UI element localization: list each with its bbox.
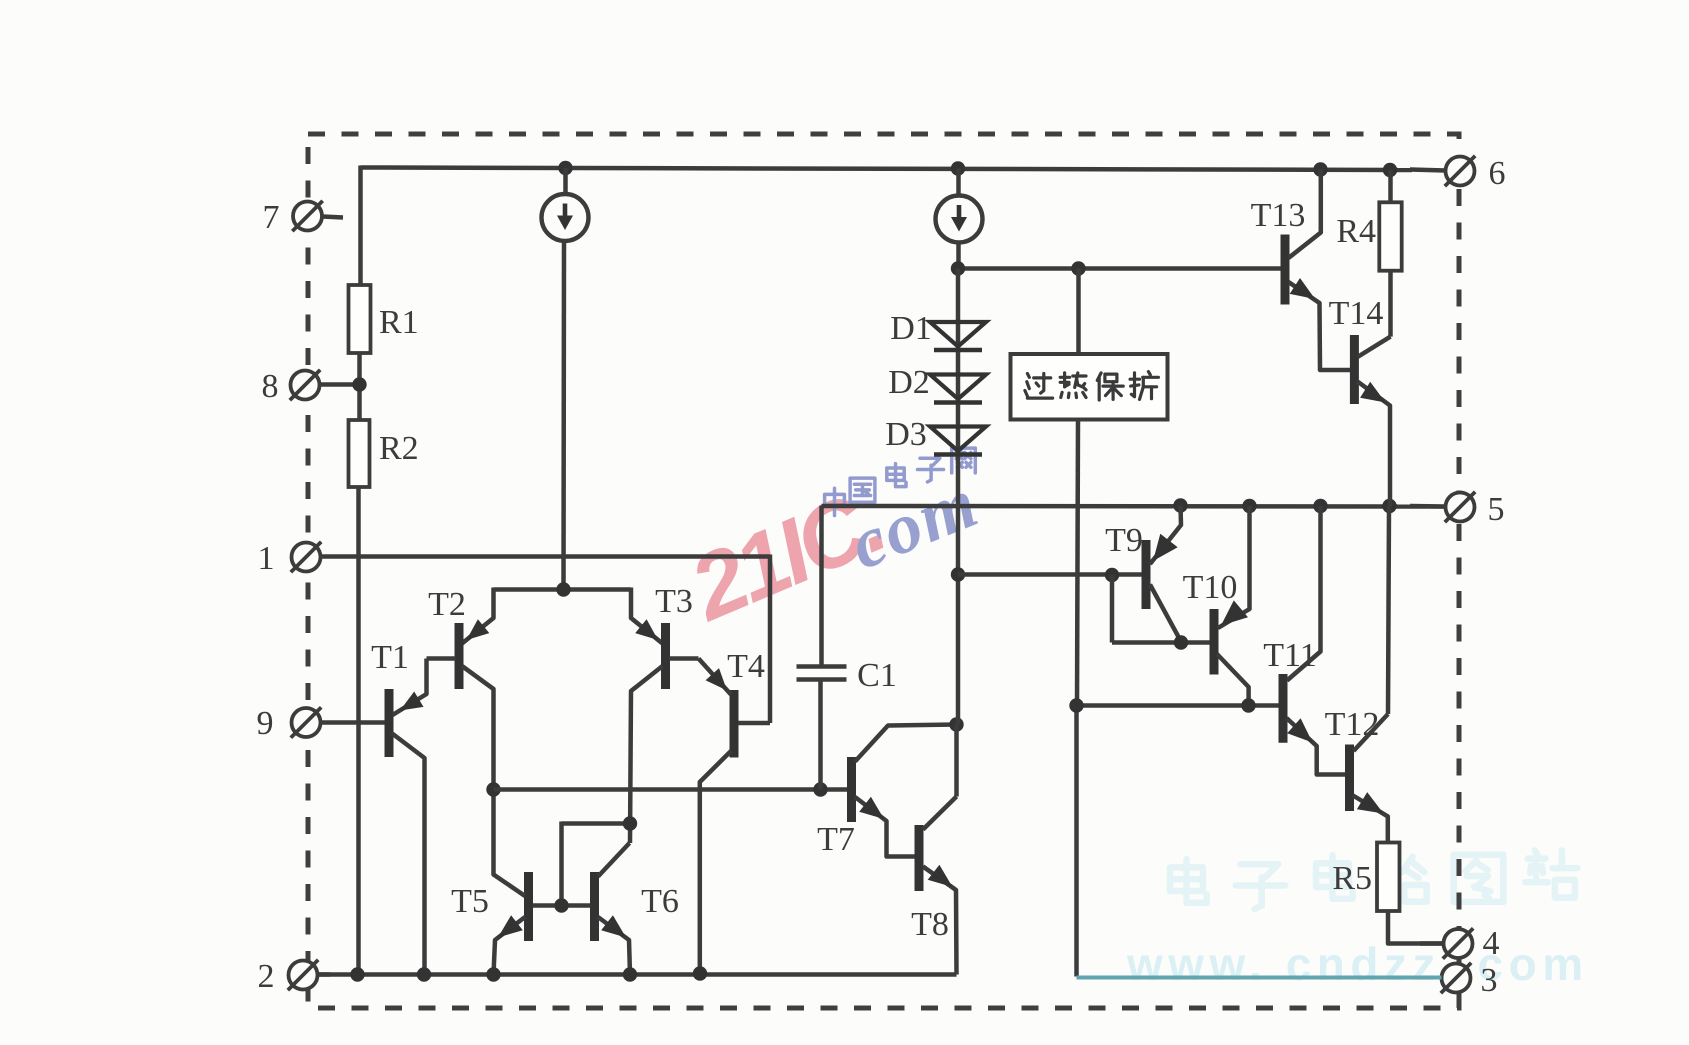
svg-text:T8: T8 — [911, 906, 949, 943]
wire R4 to T14 collector — [1388, 271, 1393, 337]
resistor R2 — [349, 420, 370, 487]
wire ground rail — [318, 972, 957, 977]
diode D2 — [930, 375, 986, 400]
svg-text:C1: C1 — [857, 657, 897, 694]
svg-text:com: com — [839, 462, 989, 585]
svg-text:R5: R5 — [1332, 860, 1372, 897]
transistor T11 — [1279, 674, 1288, 743]
svg-text:R1: R1 — [379, 304, 419, 341]
node diode stack / T9 base wire — [951, 567, 965, 581]
transistor T1 — [385, 689, 394, 757]
resistor R4 — [1379, 202, 1401, 270]
wire T5/T6 base bracket — [562, 821, 631, 826]
svg-text:1: 1 — [258, 540, 275, 577]
pin 5 — [1446, 493, 1475, 522]
node bias/I2 — [951, 261, 965, 275]
svg-text:T4: T4 — [727, 648, 765, 685]
wire R5 to pin 4 — [1388, 911, 1444, 944]
pin 6 — [1446, 157, 1475, 186]
node pin5/T11 collector — [1313, 499, 1327, 513]
wire R2 down to ground rail — [356, 487, 361, 975]
transistor T5 — [524, 872, 533, 941]
pin 4 — [1444, 929, 1473, 958]
node pin 8 junction — [352, 377, 366, 391]
svg-text:7: 7 — [263, 199, 280, 236]
wire D3 to T7/T8 collector node — [954, 725, 959, 797]
node bracket / I1 — [556, 582, 570, 596]
node top rail / T13 collector — [1313, 162, 1327, 176]
node T3 collector / mirror — [623, 816, 637, 830]
node C1 bottom — [813, 782, 827, 796]
svg-text:T6: T6 — [641, 883, 679, 920]
transistor T10 — [1210, 609, 1219, 675]
node T7/T8 collector — [949, 717, 963, 731]
wire I2 bottom lead — [956, 242, 961, 269]
wire thermal box bottom lead — [1077, 420, 1078, 706]
pin 9 — [292, 708, 321, 737]
svg-text:D2: D2 — [888, 364, 930, 401]
node top rail / current source I1 — [558, 161, 572, 175]
wire pin 3 lead — [1077, 976, 1442, 980]
node T10 collector/T11 base — [1241, 698, 1255, 712]
watermark com blue script — [839, 462, 989, 585]
node gnd/R2 — [350, 967, 364, 981]
arrow T3 emitter — [635, 619, 658, 640]
IC boundary dashed frame — [308, 134, 1459, 1008]
resistor R1 — [349, 285, 371, 353]
diode D3 — [930, 427, 986, 452]
node T9 base bracket — [1105, 568, 1119, 582]
svg-text:T2: T2 — [428, 586, 466, 623]
svg-text:R2: R2 — [379, 430, 419, 467]
capacitor C1 — [797, 664, 847, 669]
transistor T9 — [1142, 540, 1151, 609]
transistor T13 — [1281, 235, 1290, 305]
wire R4 top lead — [1388, 170, 1393, 202]
wire T12 collector to pin5 — [1388, 506, 1389, 714]
svg-text:T12: T12 — [1325, 706, 1380, 743]
svg-text:8: 8 — [262, 368, 279, 405]
wire I2 top lead — [956, 169, 961, 197]
wire thermal to pin3 corner — [1074, 706, 1079, 977]
svg-text:6: 6 — [1489, 155, 1506, 192]
node T6 base bracket — [554, 898, 568, 912]
resistor R5 — [1377, 843, 1400, 912]
svg-text:T7: T7 — [817, 821, 855, 858]
current source I1 — [542, 194, 589, 241]
node T9 collector / T10 base — [1174, 635, 1188, 649]
pin 2 — [289, 961, 318, 990]
wire thermal box top lead — [1076, 269, 1081, 355]
node thermal/T11 base — [1069, 698, 1083, 712]
svg-text:R4: R4 — [1336, 213, 1376, 250]
current source I2 — [936, 196, 983, 243]
wire T2/T3 emitter bracket — [494, 587, 632, 592]
wire I1 top lead — [563, 168, 568, 195]
arrow T2 emitter — [467, 619, 490, 640]
transistor T12 — [1345, 745, 1354, 812]
node gnd/T4 — [693, 966, 707, 980]
pin 8 — [291, 371, 320, 400]
transistor T3 — [661, 623, 670, 689]
wire pin 5 rail — [822, 504, 1446, 509]
transistor T4 — [730, 690, 739, 758]
watermark dianzi dianlu tuzhan cyan — [1170, 850, 1577, 909]
node gnd/T5 — [486, 967, 500, 981]
svg-text:9: 9 — [257, 705, 274, 742]
diode D1 — [930, 322, 986, 347]
wire I1 to diff pair — [561, 240, 566, 590]
wire top supply rail — [361, 168, 1413, 171]
wire T11 base net — [1077, 703, 1280, 708]
watermark zhongguo dianziwang blue — [825, 448, 976, 515]
wire R1 to pin8 node — [357, 353, 362, 420]
node bias/thermal box — [1071, 261, 1085, 275]
node gnd/T6 — [623, 967, 637, 981]
node pin5/T10 emitter — [1242, 499, 1256, 513]
wire T9/T10 base bracket — [1110, 575, 1115, 643]
node gnd/T1 — [417, 967, 431, 981]
svg-text:D1: D1 — [890, 310, 932, 347]
wire I2 to D1 — [956, 269, 961, 725]
overheat protection box — [1011, 354, 1168, 420]
svg-text:D3: D3 — [885, 416, 927, 453]
transistor T2 — [455, 623, 464, 689]
svg-text:T13: T13 — [1251, 197, 1306, 234]
svg-text:3: 3 — [1481, 962, 1498, 999]
svg-text:T3: T3 — [655, 583, 693, 620]
pin 7 — [293, 202, 322, 231]
overheat protection text — [1025, 372, 1159, 400]
svg-text:T5: T5 — [451, 883, 489, 920]
svg-text:www. cndzz. com: www. cndzz. com — [1126, 938, 1589, 990]
wire T9 base net — [958, 572, 1143, 577]
transistor T6 — [590, 872, 599, 941]
wire pin1 to T4 base — [332, 554, 770, 559]
svg-text:4: 4 — [1483, 925, 1500, 962]
svg-text:2: 2 — [258, 958, 275, 995]
pin 3 — [1442, 964, 1471, 993]
node T2 collector / T7 base wire — [486, 782, 500, 796]
node top rail / R4 — [1383, 163, 1397, 177]
svg-text:T10: T10 — [1183, 569, 1238, 606]
svg-text:T1: T1 — [371, 639, 409, 676]
node top rail / current source I2 — [951, 161, 965, 175]
svg-text:5: 5 — [1488, 491, 1505, 528]
wire bias line to T13 base — [958, 266, 1282, 271]
svg-text:T9: T9 — [1105, 522, 1143, 559]
transistor T14 — [1350, 335, 1359, 404]
svg-text:T14: T14 — [1329, 295, 1384, 332]
node pin5/T9 emitter — [1173, 498, 1187, 512]
svg-text:T11: T11 — [1263, 637, 1317, 674]
watermark 21IC pink — [675, 470, 896, 641]
wire T7 base net — [494, 787, 849, 792]
transistor T8 — [915, 825, 924, 891]
node pin5/T14 emitter — [1382, 499, 1396, 513]
pin 1 — [292, 543, 321, 572]
transistor T7 — [847, 757, 856, 822]
